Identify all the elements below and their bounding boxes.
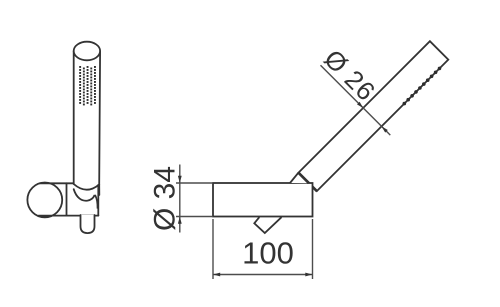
dimension lines xyxy=(176,65,390,279)
holder divider line xyxy=(66,183,68,215)
cradle shaded crescent xyxy=(94,194,98,208)
spray beads on rod edge xyxy=(403,67,442,106)
tube bottom arc xyxy=(74,184,100,190)
100 dimension line xyxy=(213,274,313,276)
cradle rim curve xyxy=(74,189,95,201)
holder body rectangle xyxy=(213,183,313,217)
holder block bottom line xyxy=(39,215,99,217)
holder block top line xyxy=(40,182,74,184)
100 arrows xyxy=(213,273,220,277)
holder wall flange circle xyxy=(27,183,62,218)
spray nozzle dot grid xyxy=(79,66,96,105)
dia34 extension lines xyxy=(176,182,212,184)
dia26 dimension line xyxy=(321,65,391,135)
holder right edge xyxy=(97,183,99,215)
dia34 arrows xyxy=(178,176,182,183)
shower handle tube xyxy=(74,51,100,184)
svg-text:100: 100 xyxy=(242,236,294,271)
svg-text:Ø 34: Ø 34 xyxy=(149,166,182,231)
shower handle rod at 45deg xyxy=(298,41,448,191)
right view: dimensioned drawing xyxy=(213,41,448,233)
100 extension lines xyxy=(212,219,214,279)
handle bottom stub xyxy=(81,215,95,233)
dia26 arrows xyxy=(357,102,363,108)
left view: hand shower in holder xyxy=(27,42,100,233)
bottom hook diamond xyxy=(254,217,281,233)
head top ellipse xyxy=(74,42,100,61)
svg-text:Ø 26: Ø 26 xyxy=(318,44,381,107)
rod bottom cap thick stroke xyxy=(298,173,316,191)
dia34 dimension line xyxy=(179,165,181,233)
connector wedge xyxy=(290,173,309,184)
